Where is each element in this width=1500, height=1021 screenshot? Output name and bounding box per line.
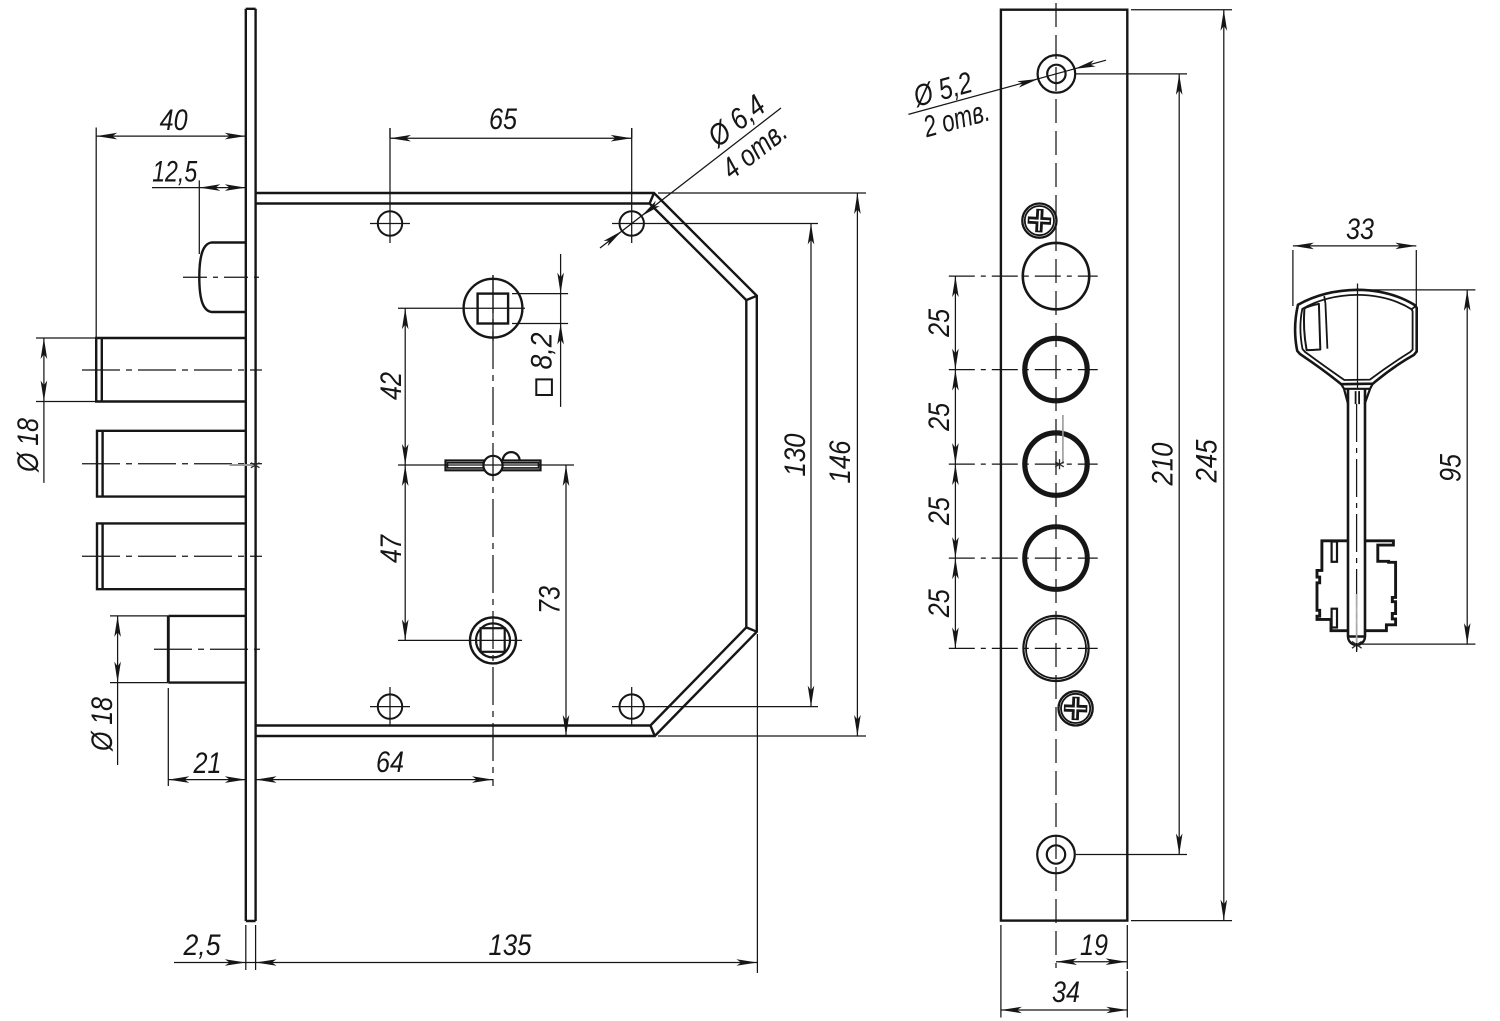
- dim dia 18 upper: [12, 338, 96, 483]
- lever centerline extension: [398, 464, 574, 466]
- svg-text:64: 64: [376, 746, 404, 779]
- dim 73: [534, 465, 570, 736]
- svg-text:65: 65: [489, 103, 517, 136]
- svg-text:12,5: 12,5: [152, 155, 197, 188]
- svg-text:Ø 18: Ø 18: [12, 418, 45, 473]
- key lever bump arc: [503, 452, 520, 460]
- faceplate: [246, 9, 256, 921]
- spindle square hole: [478, 294, 509, 324]
- screw hole top-left: [378, 211, 402, 235]
- svg-text:47: 47: [375, 534, 408, 563]
- plate top hole: [1038, 55, 1076, 93]
- svg-text:25: 25: [923, 589, 956, 618]
- key bit left wing: [1317, 541, 1348, 631]
- dim 2,5 and 135: [174, 634, 757, 973]
- svg-text:Ø 18: Ø 18: [86, 697, 119, 752]
- svg-text:25: 25: [923, 497, 956, 526]
- leader dia 6,4 4 holes: [600, 89, 794, 248]
- plate centerline: [1055, 3, 1057, 968]
- face plate outline: [1001, 10, 1127, 921]
- dim dia 18 lower: [86, 616, 168, 765]
- latch bolt: [199, 243, 246, 313]
- svg-text:73: 73: [534, 586, 567, 614]
- cylinder crosshair: [398, 639, 522, 641]
- dim 12,5: [152, 155, 246, 254]
- phillips screw upper: [1022, 204, 1056, 238]
- deadbolt 1: [96, 338, 246, 402]
- key shaft slot lines: [1356, 391, 1360, 404]
- deadbolt 3: [97, 523, 246, 589]
- key lever hub circle: [483, 456, 502, 475]
- key bow chamfer ticks: [1324, 296, 1415, 309]
- svg-text:42: 42: [375, 372, 408, 400]
- plate bottom hole: [1037, 836, 1075, 874]
- bolt hole 1: [1023, 243, 1089, 309]
- bolt hole 2: [1025, 338, 1087, 400]
- svg-text:135: 135: [489, 929, 532, 962]
- phillips screw lower: [1059, 691, 1093, 725]
- key axis centerline: [1357, 284, 1359, 389]
- dim 42: [375, 308, 409, 465]
- spindle crosshair: [398, 275, 525, 341]
- dim 130: [779, 224, 814, 707]
- key bow outer outline: [1295, 290, 1417, 384]
- dim 64: [256, 746, 493, 783]
- leader dia 5,2 2 holes: [908, 60, 1106, 144]
- key lever inner plate: [448, 463, 539, 468]
- screw hole bottom-left: [378, 694, 402, 718]
- artifact grey snap mark at faceplate: [230, 464, 253, 466]
- deadbolt 2 centerline: [82, 463, 262, 465]
- svg-text:40: 40: [160, 104, 188, 137]
- svg-text:210: 210: [1147, 442, 1180, 486]
- svg-text:130: 130: [779, 433, 812, 476]
- cylinder boss inner circle: [476, 623, 510, 657]
- deadbolt 3 centerline: [82, 555, 262, 557]
- dim sq 8,2: [512, 254, 568, 407]
- spindle hub circle: [464, 279, 523, 338]
- lock case inner outline: [256, 204, 747, 726]
- screw hole top-right: [620, 211, 644, 235]
- key bit right wing: [1365, 541, 1396, 631]
- dim 21: [168, 688, 246, 786]
- key neck flares: [1344, 389, 1370, 404]
- deadbolt 1 centerline: [82, 369, 262, 371]
- auxiliary bolt: [168, 616, 246, 683]
- dim 40: [96, 104, 246, 338]
- cylinder square hole: [481, 628, 505, 652]
- svg-text:95: 95: [1435, 454, 1468, 482]
- artifact grey line in shaft: [1356, 594, 1358, 643]
- key shaft: [1348, 389, 1365, 637]
- svg-text:21: 21: [193, 747, 222, 780]
- svg-text:19: 19: [1080, 929, 1108, 962]
- dim 47: [375, 465, 409, 640]
- lock case outer outline: [256, 193, 757, 736]
- svg-text:33: 33: [1346, 213, 1374, 246]
- cylinder boss outer circle: [470, 617, 516, 663]
- key bit left slot lower: [1332, 609, 1337, 628]
- key tip cap: [1348, 637, 1365, 646]
- dim 65: [390, 103, 632, 142]
- key lever outer plate: [446, 461, 541, 471]
- dim chain 25 x4: [923, 276, 959, 648]
- bolt hole 4: [1025, 527, 1088, 590]
- key bow facet line: [1325, 303, 1327, 349]
- svg-text:25: 25: [923, 403, 956, 432]
- key tip star mark: [1352, 639, 1362, 650]
- svg-text:8,2: 8,2: [526, 332, 559, 369]
- screw hole bottom-right: [620, 694, 644, 718]
- dim 146: [658, 193, 866, 736]
- dim 19: [1056, 925, 1127, 969]
- dim 95: [1358, 290, 1476, 644]
- chamfer corner caps: [650, 193, 757, 736]
- bolt hole 3: [1025, 433, 1087, 495]
- auxiliary bolt centerline: [154, 648, 262, 650]
- dim 34: [1001, 925, 1127, 1018]
- svg-text:34: 34: [1052, 976, 1080, 1009]
- bolt hole 5: [1023, 616, 1088, 681]
- svg-text:245: 245: [1191, 439, 1224, 483]
- artifact grey mark at bolt hole 3: [1062, 415, 1064, 464]
- dim 33: [1293, 213, 1416, 307]
- key bow inner rim: [1300, 295, 1412, 380]
- key bit left slot upper: [1332, 542, 1337, 562]
- latch centerline: [183, 276, 260, 278]
- dim 210: [1076, 74, 1187, 855]
- svg-text:146: 146: [824, 440, 857, 483]
- dim 245: [1131, 10, 1232, 921]
- deadbolt 2: [97, 431, 246, 497]
- svg-text:2,5: 2,5: [183, 929, 221, 962]
- key bow grip cutout: [1304, 304, 1320, 350]
- key neck band: [1341, 384, 1373, 389]
- main vertical centerline: [492, 275, 494, 786]
- svg-text:25: 25: [923, 309, 956, 338]
